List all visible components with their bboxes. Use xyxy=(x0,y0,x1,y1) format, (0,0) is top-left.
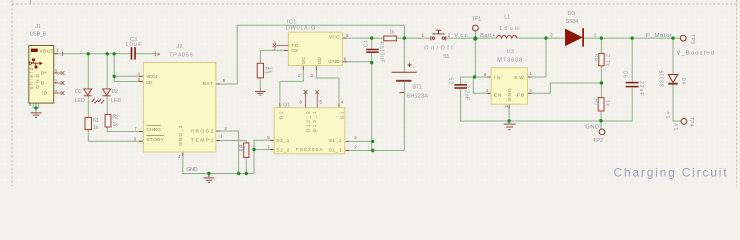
node: junction Q1 drain lower / battery minus xyxy=(371,149,374,152)
svg-text:SS315: SS315 xyxy=(659,70,665,87)
wire IC1 GND to C4 column xyxy=(342,61,371,63)
svg-text:OD: OD xyxy=(317,56,323,64)
capacitor C3 xyxy=(132,47,136,59)
diode D4 SS315 xyxy=(668,75,678,84)
J1 pin 1 stub and end tick xyxy=(62,52,64,56)
node: junction R6 / R7 / FB xyxy=(600,81,603,84)
wire IC1 OC to Q1 G2 xyxy=(280,66,303,108)
resistor R4 xyxy=(244,143,249,158)
net labels (gray) xyxy=(186,33,714,173)
ground at bottom rail xyxy=(203,174,214,183)
Q1 D12_2 stub with no-connect xyxy=(304,90,308,108)
sheet border tick xyxy=(30,0,32,4)
wire D1 column top xyxy=(87,54,89,88)
svg-text:VCC: VCC xyxy=(329,34,340,40)
svg-text:1k: 1k xyxy=(389,30,395,36)
test point TP1 xyxy=(473,25,479,31)
wire U3 FB to divider junction xyxy=(528,83,602,93)
resistor R1 xyxy=(85,118,92,130)
wire bottom ground rail xyxy=(198,173,254,175)
svg-text:TP3: TP3 xyxy=(689,34,695,44)
svg-text:ID: ID xyxy=(42,91,48,97)
pin stubs J2 left (VCC 4, CE 8, CHRG 7, STDBY 6) xyxy=(139,76,143,141)
svg-text:GND: GND xyxy=(328,59,340,65)
svg-text:TP4056: TP4056 xyxy=(169,53,193,59)
svg-text:FS8205A: FS8205A xyxy=(296,147,324,153)
svg-text:22uF: 22uF xyxy=(638,81,644,96)
J1 USB trident icon xyxy=(29,59,43,69)
test point TP3 xyxy=(680,35,686,41)
svg-text:DW01A-G: DW01A-G xyxy=(286,26,316,32)
wire U3 GND stub xyxy=(508,104,510,123)
wire Q1 right pins to battery minus xyxy=(348,81,404,150)
wire switch pin 2 to L1 via Vcc / TP1 / Batt+ xyxy=(446,37,497,39)
svg-text:D12_2: D12_2 xyxy=(306,111,312,132)
svg-text:USB_B: USB_B xyxy=(30,32,47,38)
svg-text:2.7k: 2.7k xyxy=(604,54,610,67)
open wire end tick after C3 xyxy=(155,51,159,56)
wire IC1 CS to R3 xyxy=(260,50,288,63)
svg-text:SS34: SS34 xyxy=(566,19,579,25)
svg-text:D+: D+ xyxy=(41,71,47,77)
wire VCC feed column xyxy=(114,54,143,77)
wire R6 bottom to R7 top xyxy=(600,66,602,98)
node: junction Q1 drain upper xyxy=(371,140,374,143)
overline for CHRG xyxy=(146,125,161,127)
J1 ID pin stub with no-connect xyxy=(54,91,65,95)
test point TP4 xyxy=(681,119,687,125)
wire D4 cathode to TP4 xyxy=(673,85,681,121)
svg-text:TP4: TP4 xyxy=(688,117,694,127)
svg-text:R6: R6 xyxy=(593,54,599,61)
J1 VBUS pin square icon xyxy=(31,49,38,52)
svg-text:D2: D2 xyxy=(112,89,119,95)
svg-text:BH123A: BH123A xyxy=(407,93,429,99)
pin stubs IC1 (VCC 5, GND 6, CS 2, OD 1, OC 3) xyxy=(284,38,347,70)
svg-text:S2_2: S2_2 xyxy=(276,148,289,154)
node: junction U3 GND / ground bus xyxy=(507,119,510,122)
wire L1 to D3 anode xyxy=(517,37,565,39)
svg-text:GND: GND xyxy=(585,125,599,131)
svg-text:BAT: BAT xyxy=(203,81,213,87)
reference and value labels (gray) xyxy=(30,11,603,144)
battery BT1 xyxy=(392,63,417,93)
svg-text:CHRG: CHRG xyxy=(146,127,161,133)
svg-text:GND: GND xyxy=(186,167,198,173)
wire R1 bottom to J2 STDBY pin 6 xyxy=(88,130,143,142)
svg-text:R1: R1 xyxy=(93,118,100,124)
svg-text:IC1: IC1 xyxy=(287,19,297,25)
wire D3 cathode to TP3 xyxy=(584,37,680,39)
svg-text:TP1: TP1 xyxy=(472,16,482,22)
svg-text:STDBY: STDBY xyxy=(146,137,164,143)
svg-text:1k: 1k xyxy=(112,122,118,128)
sheet border dashed frame xyxy=(12,0,737,186)
svg-text:D1: D1 xyxy=(75,89,82,95)
svg-text:Batt+: Batt+ xyxy=(480,33,496,39)
ground under U3 xyxy=(504,124,516,130)
wire R4 bottom to rail xyxy=(245,157,247,173)
node: junction VBUS / D1 column xyxy=(87,52,90,55)
svg-text:1k: 1k xyxy=(604,100,610,107)
node: junction VCC / CE feed xyxy=(113,75,116,78)
capacitor C6 xyxy=(626,83,639,87)
svg-text:MT3608: MT3608 xyxy=(497,57,522,63)
wire USB GND pins join xyxy=(33,103,38,112)
wire R2 bottom to J2 CHRG pin 7 xyxy=(107,127,143,132)
resistor R6 xyxy=(599,53,604,65)
IC U3 MT3608 body xyxy=(491,68,527,104)
pin stubs U3 (IN 5, EN 4, SW 1, FB 3, GND 2) xyxy=(487,77,532,109)
svg-text:VCC4: VCC4 xyxy=(146,74,158,80)
test point TP2 xyxy=(599,129,605,135)
wire R3 bottom to ground xyxy=(259,78,261,91)
svg-text:TD: TD xyxy=(291,43,298,49)
wire C6 top column xyxy=(631,38,633,82)
svg-text:P_Motor: P_Motor xyxy=(646,33,672,39)
diode D3 SS34 xyxy=(565,28,583,46)
wire J2 PROG to rail xyxy=(216,131,239,174)
svg-text:V_Boosted: V_Boosted xyxy=(677,51,715,57)
wire J2 BAT to battery + rail xyxy=(216,25,405,84)
svg-text:FB: FB xyxy=(517,93,524,99)
J1 D- pin stub with no-connect xyxy=(54,81,65,85)
svg-text:S2_1: S2_1 xyxy=(276,138,289,144)
wire Vcc down to U3 IN xyxy=(475,38,491,77)
node: junction rail / R6 xyxy=(600,36,603,39)
svg-text:1k: 1k xyxy=(239,146,245,153)
LED D1 xyxy=(84,89,98,103)
wire C5 top feed xyxy=(461,77,475,84)
svg-text:Charging Circuit: Charging Circuit xyxy=(614,165,729,179)
svg-text:SW: SW xyxy=(514,75,524,81)
svg-text:R5: R5 xyxy=(378,42,384,49)
svg-text:5v: 5v xyxy=(674,123,680,131)
wire D2 column top xyxy=(106,54,108,88)
svg-text:OC: OC xyxy=(301,56,307,64)
svg-text:5v: 5v xyxy=(666,111,672,119)
capacitor C4 xyxy=(366,50,378,53)
resistor R2 xyxy=(105,115,111,128)
svg-text:D4: D4 xyxy=(680,78,686,85)
svg-text:1k: 1k xyxy=(93,125,99,131)
wire J2 GND pin down to rail xyxy=(183,152,199,174)
node: junction USB ground pins xyxy=(34,106,37,109)
svg-text:10uF: 10uF xyxy=(378,49,384,63)
node: junction VBUS / D2 column xyxy=(106,52,109,55)
connector J1 USB_B body xyxy=(29,46,54,104)
node: junction rail / D4 xyxy=(671,36,674,39)
wire Q1 left pins to bottom rail xyxy=(254,140,274,173)
wire IC1 VCC to R5 xyxy=(342,37,383,39)
wire ground bus C5 to C6 xyxy=(461,87,633,121)
svg-text:S1_2: S1_2 xyxy=(329,138,342,144)
ground under USB xyxy=(31,113,42,117)
J1 D+ pin stub with no-connect xyxy=(54,71,65,75)
capacitor C5 xyxy=(454,85,467,88)
pin numbers (muted maroon) xyxy=(29,32,597,159)
pin stubs Q1 (S2 8/7, S1 3/2, G2 4, G1) xyxy=(270,103,349,150)
svg-text:C6: C6 xyxy=(622,71,628,78)
wire D2 cathode to R2 xyxy=(106,96,108,115)
resistor R7 xyxy=(598,98,604,111)
svg-text:C5: C5 xyxy=(450,77,456,84)
wire R6 top stub xyxy=(600,38,602,53)
resistor R5 xyxy=(384,36,397,41)
IC1 TD pin stub with no-connect xyxy=(273,44,289,48)
wire C4 column with rail tap xyxy=(371,38,373,150)
svg-text:S1_1: S1_1 xyxy=(329,148,342,154)
wire R5 to switch pin 1 xyxy=(396,37,431,39)
wire CE feed xyxy=(114,76,143,81)
svg-text:6: 6 xyxy=(29,103,31,107)
wire C3 right to open end xyxy=(136,53,155,55)
svg-text:D-: D- xyxy=(41,81,48,87)
svg-text:GND: GND xyxy=(507,88,513,101)
component pin stubs (maroon) xyxy=(54,38,532,156)
wire D1 cathode to R1 xyxy=(87,96,89,118)
svg-text:15uH: 15uH xyxy=(499,26,519,32)
wire VBUS rail from USB pin1 to C3 xyxy=(54,53,131,55)
switch S1 xyxy=(431,30,446,40)
inductor L1 xyxy=(496,35,517,38)
node: junction rail / battery plus xyxy=(403,36,406,39)
svg-text:IN: IN xyxy=(494,75,501,81)
pin stubs J2 right (BAT 5, PROG 2, TEMP 1) xyxy=(216,84,220,141)
svg-text:C4: C4 xyxy=(363,40,369,47)
wire TP1 drop xyxy=(474,31,476,38)
svg-text:5: 5 xyxy=(35,103,37,107)
svg-text:D3: D3 xyxy=(568,11,576,17)
node: junction R7 / ground bus / TP2 xyxy=(599,119,602,122)
svg-text:GND_3: GND_3 xyxy=(178,125,184,146)
transistor Q1 FS8205A body xyxy=(274,108,345,154)
rotated small labels xyxy=(236,34,695,152)
svg-text:LED: LED xyxy=(111,98,122,104)
wire J2 TEMP to R4 xyxy=(216,141,247,143)
resistor R3 xyxy=(257,63,263,78)
svg-text:CE: CE xyxy=(146,80,153,86)
svg-text:TP2: TP2 xyxy=(593,138,603,144)
svg-text:10uF: 10uF xyxy=(125,42,142,48)
svg-text:1k: 1k xyxy=(266,67,272,74)
node: junction Q1 source pins xyxy=(252,148,255,151)
pin 1 stub J1 VBUS xyxy=(54,53,58,55)
node: junction VBUS / VCC feed xyxy=(113,52,116,55)
node: junction Vcc / TP1 / U3 feed xyxy=(473,36,477,40)
svg-text:S1: S1 xyxy=(443,54,450,60)
svg-text:Vcc: Vcc xyxy=(454,33,468,39)
node: junction ground rail / GND symbol xyxy=(207,172,210,175)
wire SW junction down to U3 SW pin xyxy=(528,38,547,77)
svg-text:U3: U3 xyxy=(507,49,515,55)
svg-text:R2: R2 xyxy=(112,114,119,120)
pin names (olive) xyxy=(29,34,524,153)
svg-text:Q1: Q1 xyxy=(283,102,291,108)
overline for STDBY xyxy=(146,134,164,136)
node: junction U3 IN / C5 / EN xyxy=(473,75,476,78)
svg-text:J2: J2 xyxy=(177,44,183,50)
Q1 D12_1 stub with no-connect xyxy=(315,90,319,108)
svg-text:R7: R7 xyxy=(593,99,599,106)
svg-text:L1: L1 xyxy=(504,14,510,20)
svg-text:BT1: BT1 xyxy=(412,85,422,91)
wire D4 top column xyxy=(672,38,674,74)
svg-text:D12_1: D12_1 xyxy=(312,111,318,132)
ground under R3 xyxy=(255,91,266,95)
svg-text:VBUS: VBUS xyxy=(40,48,55,54)
node: junction rail / C4 top xyxy=(370,36,373,39)
node: junction L1 out / U3 SW xyxy=(544,36,547,39)
IC1 DW01A-G body xyxy=(288,32,342,65)
wire IC1 OD to Q1 G1 xyxy=(316,66,339,108)
svg-text:J1: J1 xyxy=(35,24,41,30)
node: junction ground rail / PROG xyxy=(237,172,240,175)
node: junction ground rail / R4 xyxy=(245,172,248,175)
wire R7 bottom to TP2 xyxy=(600,111,602,129)
pin 3 stub J2 GND xyxy=(182,152,184,156)
svg-text:EN: EN xyxy=(494,93,502,99)
wire U3 EN tie to IN xyxy=(473,77,491,93)
LED D2 xyxy=(99,89,111,103)
node: junction C4 / IC1 GND xyxy=(370,61,373,64)
svg-text:2.2uF: 2.2uF xyxy=(464,85,470,100)
svg-text:LED: LED xyxy=(75,98,86,104)
node: junction rail / C6 xyxy=(631,36,634,39)
IC J2 TP4056 body xyxy=(143,63,215,153)
svg-text:CS: CS xyxy=(291,48,299,54)
